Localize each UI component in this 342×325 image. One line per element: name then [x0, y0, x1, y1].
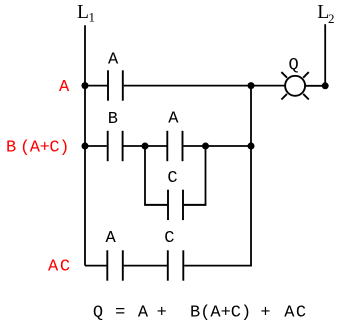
svg-text:C: C	[164, 229, 174, 248]
svg-text:B(A+C): B(A+C)	[190, 304, 251, 323]
rung 2 wire: contact A to branch right node	[183, 145, 205, 147]
junction dot: branch left node	[142, 143, 149, 150]
svg-text:Q: Q	[93, 304, 103, 323]
svg-text:AC: AC	[48, 258, 72, 277]
power rail L2 wire	[324, 24, 326, 86]
lamp Q	[281, 72, 308, 99]
rung 1 wire: contact A to lamp	[124, 85, 286, 87]
junction dot: rung1 x mid vertical	[248, 82, 255, 89]
svg-text:B: B	[6, 138, 16, 157]
branch wire: contact C to right vertical	[184, 204, 207, 206]
rung 2 wire: left rail to contact B	[85, 145, 107, 147]
junction dot: rung1 x right rail	[322, 82, 329, 89]
svg-text:Q: Q	[289, 56, 299, 75]
rung 3 wire: contact C to mid vertical corner	[184, 265, 252, 267]
svg-text:B: B	[108, 110, 118, 129]
parallel branch right vertical wire	[205, 146, 207, 205]
junction dot: rung2 x mid vertical	[248, 143, 255, 150]
rung 2 wire: branch node to contact A	[145, 145, 167, 147]
rung 1 wire: left rail to contact A	[85, 85, 107, 87]
svg-text:+: +	[260, 304, 270, 323]
svg-text:A: A	[108, 50, 119, 69]
contact B (rung 2)	[108, 131, 123, 161]
contact A (rung 2)	[167, 131, 182, 161]
power rail L1 label	[77, 2, 95, 25]
junction dot: branch right node	[202, 143, 209, 150]
mid vertical bus wire	[250, 86, 252, 266]
svg-text:1: 1	[89, 10, 96, 25]
rung 1 wire: lamp to right rail	[305, 85, 325, 87]
svg-text:A: A	[59, 78, 70, 97]
rung 2 wire: contact B to branch node	[124, 145, 146, 147]
rung 3 wire: left rail corner to contact A	[85, 265, 107, 267]
branch wire: left vertical to contact C	[144, 204, 167, 206]
svg-text:L: L	[77, 2, 89, 23]
junction dot: rung2 x left rail	[82, 143, 89, 150]
power rail L1 wire	[84, 25, 86, 265]
svg-text:=: =	[115, 304, 125, 323]
svg-text:AC: AC	[284, 304, 307, 323]
svg-text:(A+C): (A+C)	[20, 138, 69, 157]
rung 3 wire: contact A to contact C	[124, 265, 167, 267]
parallel branch left vertical wire	[144, 146, 146, 205]
equation Q = A + B(A+C) + AC	[93, 304, 308, 323]
rung 2 wire: branch right node to mid vertical	[206, 145, 252, 147]
power rail L2 label	[317, 2, 334, 26]
svg-text:2: 2	[328, 11, 335, 26]
svg-text:A: A	[106, 229, 117, 248]
junction dot: rung1 x left rail	[82, 82, 89, 89]
svg-text:+: +	[157, 304, 167, 323]
contact A (rung 3)	[107, 250, 123, 280]
svg-text:C: C	[167, 169, 177, 188]
node label B (A+C) (red)	[6, 138, 69, 157]
contact C (rung 3)	[168, 250, 184, 280]
svg-text:A: A	[168, 109, 179, 128]
contact A (rung 1)	[108, 70, 123, 100]
contact C (branch)	[168, 190, 183, 220]
svg-text:A: A	[138, 304, 149, 323]
